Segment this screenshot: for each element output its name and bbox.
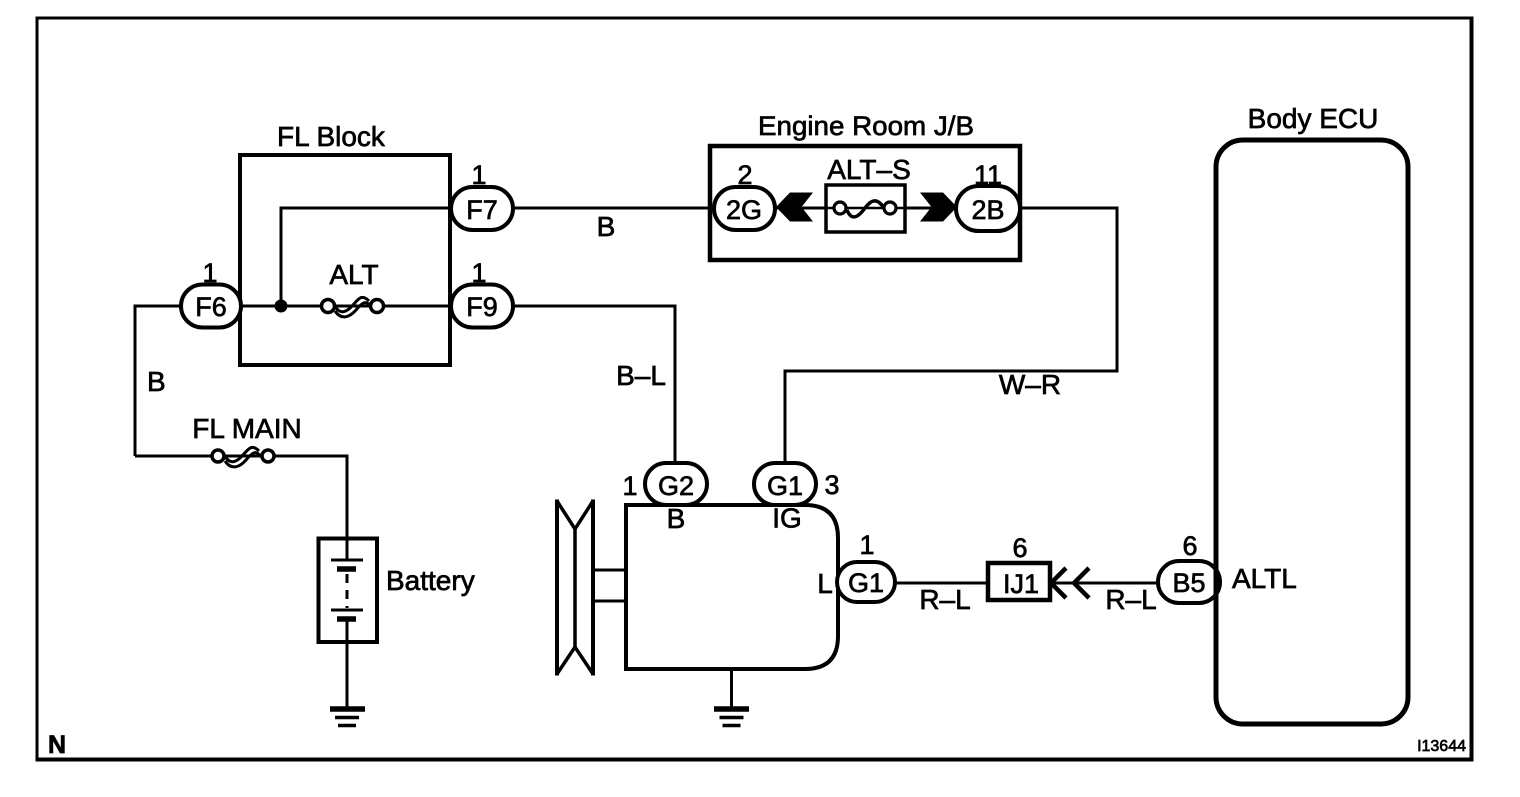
wire FL MAIN horizontal to battery drop — [135, 456, 347, 540]
connector F9 — [451, 285, 513, 328]
svg-text:R–L: R–L — [919, 584, 970, 615]
svg-text:1: 1 — [471, 258, 486, 288]
connector B5 — [1158, 561, 1220, 603]
connector G1 right on alternator — [837, 562, 895, 602]
svg-text:L: L — [817, 568, 833, 599]
connector 2G — [714, 187, 775, 230]
svg-text:1: 1 — [471, 160, 486, 190]
svg-text:B–L: B–L — [616, 360, 666, 391]
wire battery to ground — [346, 640, 349, 707]
svg-text:G1: G1 — [848, 568, 884, 598]
svg-text:B: B — [147, 366, 166, 397]
svg-text:6: 6 — [1012, 533, 1027, 563]
svg-text:ALTL: ALTL — [1232, 563, 1297, 594]
fusible link FL MAIN — [212, 447, 274, 467]
outer border thicker bottom edge — [36, 758, 1474, 762]
chevron arrows pointing left at IJ1 — [1051, 568, 1089, 598]
svg-text:G1: G1 — [767, 471, 803, 501]
svg-text:IJ1: IJ1 — [1003, 569, 1039, 599]
svg-text:3: 3 — [824, 470, 839, 500]
svg-text:ALT–S: ALT–S — [827, 154, 911, 185]
connector G2 on alternator — [645, 463, 707, 505]
svg-text:Body ECU: Body ECU — [1248, 103, 1379, 134]
wire B from F7 to 2G — [513, 207, 744, 210]
svg-text:F7: F7 — [466, 195, 498, 225]
Engine Room J/B box — [710, 146, 1020, 260]
FL Block box — [240, 155, 450, 365]
wire B-L from F9 to alternator G2 — [513, 306, 675, 464]
wire W-R from 2B to alternator G1 IG — [785, 208, 1117, 464]
junction connector IJ1 — [988, 563, 1050, 600]
svg-text:2B: 2B — [971, 195, 1004, 225]
svg-text:6: 6 — [1182, 531, 1197, 561]
alternator body — [626, 505, 838, 669]
svg-text:2: 2 — [737, 160, 752, 190]
svg-text:1: 1 — [622, 471, 637, 501]
svg-text:Engine Room J/B: Engine Room J/B — [758, 111, 974, 141]
svg-text:B5: B5 — [1172, 568, 1205, 598]
svg-text:B: B — [667, 503, 686, 534]
svg-text:Battery: Battery — [386, 565, 475, 596]
svg-text:FL Block: FL Block — [277, 121, 386, 152]
wire alternator body to ground — [730, 669, 733, 707]
svg-text:F9: F9 — [466, 292, 498, 322]
svg-text:N: N — [48, 731, 66, 759]
svg-text:FL MAIN: FL MAIN — [192, 413, 301, 444]
arrow into 2B (solid chevron pointing right) — [920, 193, 957, 222]
svg-text:IG: IG — [772, 503, 802, 534]
fuse ALT-S box — [826, 185, 905, 232]
svg-text:R–L: R–L — [1105, 584, 1156, 615]
Body ECU box — [1216, 140, 1408, 724]
svg-text:11: 11 — [974, 160, 1002, 190]
alternator pulley — [557, 500, 593, 676]
svg-text:1: 1 — [202, 258, 217, 288]
svg-text:G2: G2 — [658, 471, 694, 501]
fusible link ALT — [322, 297, 384, 317]
svg-text:1: 1 — [859, 530, 874, 560]
svg-text:W–R: W–R — [999, 369, 1061, 400]
wire inside FL Block F6 to F9 through ALT fuse — [211, 305, 482, 308]
svg-text:ALT: ALT — [329, 259, 378, 290]
arrow into 2G (solid chevron pointing left) — [776, 193, 813, 222]
ground below battery — [330, 709, 365, 726]
ground below alternator — [714, 709, 749, 726]
wire junction to F7 — [281, 208, 482, 306]
wire B from F6 left down to FL MAIN — [135, 306, 211, 456]
svg-text:F6: F6 — [195, 292, 227, 322]
svg-text:2G: 2G — [726, 195, 762, 225]
svg-text:B: B — [597, 211, 616, 242]
connector 2B — [956, 186, 1020, 231]
wire through ALT-S fuse 2G to 2B — [744, 207, 988, 210]
junction dot node — [275, 300, 288, 313]
connector F6 — [181, 285, 241, 328]
outer border thicker right edge — [1470, 17, 1474, 762]
alternator shaft — [593, 570, 626, 601]
connector F7 — [451, 187, 513, 230]
battery — [319, 538, 378, 642]
wire R-L from alternator G1 L to B5 — [866, 582, 1158, 585]
connector G1 top on alternator — [754, 463, 816, 505]
svg-text:I13644: I13644 — [1417, 738, 1466, 755]
